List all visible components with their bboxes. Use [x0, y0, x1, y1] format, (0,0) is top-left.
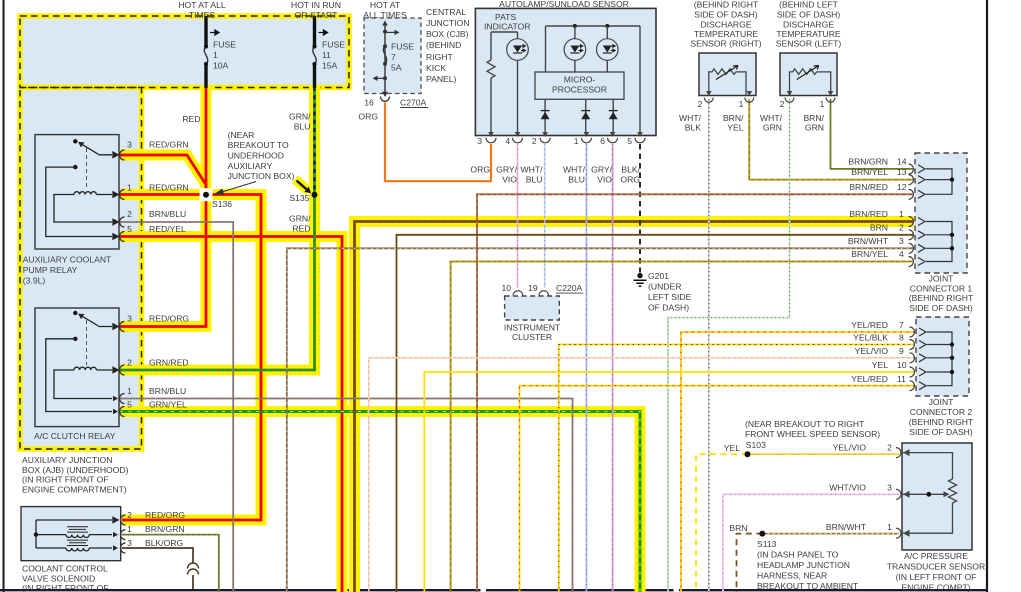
svg-text:BRN: BRN	[870, 223, 888, 233]
svg-text:11: 11	[322, 50, 331, 60]
svg-text:2: 2	[780, 99, 785, 109]
svg-text:1: 1	[127, 183, 132, 193]
svg-text:16: 16	[364, 98, 374, 108]
fuse F1 tap arrow	[210, 30, 219, 35]
aux relay lower contact dot	[73, 165, 77, 169]
autolamp pin connector cups 3 4 2 1 6 5	[486, 138, 496, 143]
auxiliary junction box AJB top band (blue fill)	[20, 16, 349, 88]
discharge temp sensor (left) box	[780, 53, 837, 96]
svg-text:1: 1	[127, 386, 132, 396]
svg-text:KICK: KICK	[426, 63, 446, 73]
micro-processor output leg pin 6	[612, 99, 614, 135]
svg-text:1: 1	[739, 99, 744, 109]
svg-text:ORG: ORG	[620, 175, 640, 185]
svg-text:1: 1	[574, 136, 579, 146]
right sensor pin cups 2 1	[704, 98, 713, 103]
svg-text:3: 3	[887, 483, 892, 493]
CJB junction dot lower	[383, 76, 387, 80]
svg-text:JOINT: JOINT	[929, 397, 955, 407]
svg-text:BRN/GRN: BRN/GRN	[145, 524, 185, 534]
svg-text:GRN/: GRN/	[289, 214, 311, 224]
JC1 internal bus group 14-12	[926, 169, 952, 194]
svg-text:1: 1	[213, 50, 218, 60]
svg-text:BRN/: BRN/	[803, 113, 824, 123]
CJB left tap arrow	[376, 77, 385, 79]
svg-text:4: 4	[899, 249, 904, 259]
svg-text:5A: 5A	[391, 63, 402, 73]
svg-text:VALVE SOLENOID: VALVE SOLENOID	[22, 574, 95, 584]
svg-text:S135: S135	[289, 193, 309, 203]
left sensor pin cups 2 1	[785, 98, 794, 103]
wire YEL/BLK JC2 pin 8 to bottom edge	[559, 345, 915, 592]
sunload photodiode D2	[564, 39, 586, 61]
wire black fuse 11 feed	[313, 16, 316, 88]
svg-text:GRY/: GRY/	[496, 165, 517, 175]
discharge temp sensor (right) box	[699, 53, 756, 96]
svg-text:2: 2	[127, 510, 132, 520]
svg-text:HOT AT ALL: HOT AT ALL	[178, 0, 226, 10]
right sensor thermistor R	[709, 69, 746, 96]
transducer pin arcs 2 3 1	[896, 448, 901, 539]
wire BRN JC1 pin 2 to bottom edge	[397, 235, 915, 592]
bus right leg to pin 5	[639, 26, 641, 136]
bus to micro-processor left drop	[545, 26, 547, 72]
solenoid top lead to pin 2	[36, 517, 118, 522]
svg-text:LEFT SIDE: LEFT SIDE	[648, 292, 692, 302]
clutch relay switch contact dot	[73, 311, 77, 315]
aux relay coil to pin 1 arrow	[96, 192, 118, 197]
svg-text:1: 1	[820, 99, 825, 109]
svg-text:8: 8	[899, 333, 904, 343]
sunload photodiode D3	[597, 39, 619, 61]
wire GRN/RED S135 down to clutch relay pin 2	[120, 195, 315, 370]
left sensor thermistor R	[790, 69, 831, 96]
svg-text:2: 2	[127, 358, 132, 368]
break symbol (double arc) on BLK/ORG	[188, 563, 199, 569]
aux relay coil to pin 2 wiring	[54, 195, 118, 225]
wire YEL/RED JC2 pin 7 to bottom edge	[681, 332, 915, 592]
JC2 pin entry arcs	[910, 327, 915, 391]
svg-text:10: 10	[502, 283, 512, 293]
svg-text:GRN/YEL: GRN/YEL	[149, 400, 187, 410]
svg-text:BLK/ORG: BLK/ORG	[145, 538, 184, 548]
JC1 internal bus group 1-4	[926, 222, 952, 262]
wire black fuse 1 feed	[204, 16, 207, 88]
svg-text:WHT/: WHT/	[563, 165, 586, 175]
wire RED/GRN aux relay pin 3 diagonal to S136	[120, 155, 206, 184]
clutch relay pin cups 3 2 1 5	[120, 322, 125, 417]
svg-text:BRN/RED: BRN/RED	[849, 209, 888, 219]
svg-text:1: 1	[887, 522, 892, 532]
autolamp internal: sunload top bus	[546, 25, 641, 27]
wire GRN/YEL clutch relay pin 5 to bottom	[120, 412, 640, 592]
wire YEL/VIO JC2 pin 9 to bottom edge	[369, 358, 915, 592]
autolamp internal: PATS branch top bar	[491, 31, 518, 33]
cluster pin 10 dome	[513, 291, 523, 296]
svg-text:10: 10	[897, 360, 907, 370]
svg-text:WHT/: WHT/	[679, 113, 702, 123]
svg-text:(IN LEFT FRONT OF: (IN LEFT FRONT OF	[896, 572, 977, 582]
solenoid internal left bus	[35, 520, 37, 548]
coolant control valve solenoid box	[21, 507, 121, 561]
svg-text:14: 14	[897, 157, 907, 167]
splice S113	[759, 531, 765, 537]
wire WHT/BLU autolamp pin 2 to instrument cluster pin 19	[544, 144, 546, 288]
highlight: GRN/BLU fuse 11 through S135, GRN/RED to clutch relay pin 2	[120, 85, 315, 370]
svg-text:(BEHIND LEFT: (BEHIND LEFT	[779, 0, 838, 10]
svg-text:RIGHT: RIGHT	[426, 52, 453, 62]
valve solenoid pin cups 2 1 3	[121, 515, 126, 553]
splice S135	[312, 192, 318, 198]
svg-text:3: 3	[127, 314, 132, 324]
diode to pin 2	[541, 110, 550, 112]
svg-text:UNDERHOOD: UNDERHOOD	[228, 151, 284, 161]
svg-text:WHT/: WHT/	[760, 113, 783, 123]
svg-text:JUNCTION BOX): JUNCTION BOX)	[228, 171, 295, 181]
svg-text:ENGINE COMPARTMENT): ENGINE COMPARTMENT)	[22, 485, 127, 495]
wire GRY/VIO autolamp pin 4 to instrument cluster pin 10	[517, 144, 519, 288]
micro-processor output leg pin 1	[585, 99, 587, 135]
svg-text:RED: RED	[292, 224, 310, 234]
node dot sunload D3	[605, 24, 609, 28]
wire GRN/BLU fuse 11 to S135	[313, 87, 316, 195]
page right border	[986, 0, 988, 592]
svg-text:RED: RED	[182, 114, 200, 124]
svg-text:JOINT: JOINT	[929, 274, 955, 284]
svg-text:C220A: C220A	[556, 283, 583, 293]
clutch relay coil to pin 1 wiring	[54, 370, 112, 399]
wire BRN/BLU clutch relay pin 1 to bottom edge	[120, 399, 573, 592]
svg-text:S103: S103	[746, 440, 766, 450]
svg-text:GRN: GRN	[763, 123, 782, 133]
svg-text:TRANSDUCER SENSOR: TRANSDUCER SENSOR	[887, 561, 985, 571]
svg-text:TIMES: TIMES	[189, 10, 216, 20]
wire BLK/ORG coolant valve pin 3 to break symbol	[122, 548, 193, 589]
svg-text:GRY/: GRY/	[591, 165, 612, 175]
svg-text:BLU: BLU	[294, 122, 311, 132]
svg-text:TEMPERATURE: TEMPERATURE	[694, 29, 759, 39]
A/C pressure transducer sensor box	[902, 443, 972, 550]
svg-text:BREAKOUT TO: BREAKOUT TO	[228, 140, 289, 150]
AJB dashed black border (column)	[20, 88, 142, 450]
svg-text:YEL: YEL	[724, 443, 740, 453]
svg-text:SIDE OF DASH): SIDE OF DASH)	[909, 427, 973, 437]
svg-text:(BEHIND RIGHT: (BEHIND RIGHT	[909, 293, 974, 303]
svg-text:PATS: PATS	[495, 12, 516, 22]
aux relay pin 3 lead arrow	[98, 152, 118, 157]
svg-text:7: 7	[899, 320, 904, 330]
leader arrow from note to S136	[216, 182, 257, 195]
svg-text:BRN/YEL: BRN/YEL	[851, 167, 888, 177]
svg-text:ALL TIMES: ALL TIMES	[363, 10, 407, 20]
AJB dashed black border (top band)	[20, 16, 349, 88]
wire BLK/ORG autolamp pin 5 to ground G201	[639, 144, 641, 273]
svg-text:RED/ORG: RED/ORG	[149, 314, 189, 324]
micro-processor output leg pin 2	[544, 99, 546, 135]
svg-text:INDICATOR: INDICATOR	[484, 22, 530, 32]
svg-text:DISCHARGE: DISCHARGE	[700, 20, 751, 30]
svg-text:(NEAR BREAKOUT TO RIGHT: (NEAR BREAKOUT TO RIGHT	[745, 419, 865, 429]
svg-text:G201: G201	[648, 271, 669, 281]
cluster pin 19 dome	[539, 291, 549, 296]
svg-text:2: 2	[887, 443, 892, 453]
PATS indicator LED D1	[507, 39, 529, 61]
svg-text:BRN/GRN: BRN/GRN	[848, 157, 888, 167]
wire GRY/VIO autolamp pin 6 to bottom edge	[612, 144, 614, 592]
svg-text:PROCESSOR: PROCESSOR	[552, 84, 607, 94]
svg-text:BLU: BLU	[526, 175, 543, 185]
svg-text:RED/ORG: RED/ORG	[145, 510, 185, 520]
wire RED main: fuse 1 to S136 to clutch relay pin 3 (RED/ORG)	[120, 87, 206, 327]
svg-text:PUMP RELAY: PUMP RELAY	[23, 265, 78, 275]
wire BRN dashed from S113 to bottom edge	[737, 534, 763, 592]
JC1 internal chevrons	[918, 165, 925, 266]
wire BRN/YEL right temp sensor pin 1 to JC1 pin 13	[749, 99, 914, 180]
wire BRN/WHT S113 to A/C pressure transducer pin 1	[762, 533, 899, 535]
svg-text:FUSE: FUSE	[391, 42, 414, 52]
PATS indicator LED leg to pin 4	[517, 32, 519, 136]
autolamp internal: left leg with resistor to pin 3	[490, 32, 492, 136]
svg-text:COOLANT CONTROL: COOLANT CONTROL	[22, 564, 108, 574]
svg-text:RED/GRN: RED/GRN	[149, 140, 189, 150]
CJB right tap arrow	[385, 31, 396, 33]
aux relay coil L	[74, 192, 96, 195]
svg-text:OR START: OR START	[295, 10, 338, 20]
svg-text:HEADLAMP JUNCTION: HEADLAMP JUNCTION	[757, 560, 850, 570]
svg-text:WHT/VIO: WHT/VIO	[829, 483, 866, 493]
svg-text:ORG: ORG	[358, 112, 378, 122]
aux relay pin cups 3 1 2 5	[120, 150, 125, 242]
connector C270A cup	[381, 97, 390, 102]
wire BRN/RED JC1 pin 1 to bottom edge (highlighted)	[355, 222, 915, 592]
svg-text:3: 3	[127, 538, 132, 548]
svg-text:5: 5	[627, 136, 632, 146]
svg-text:(IN RIGHT FRONT OF: (IN RIGHT FRONT OF	[22, 583, 109, 592]
svg-text:SIDE OF DASH): SIDE OF DASH)	[777, 10, 841, 20]
diode to pin 1	[581, 110, 590, 112]
wire WHT/BLK right temp sensor pin 2 to bottom edge	[708, 99, 710, 592]
autolamp pin exit arrows	[488, 132, 643, 137]
svg-text:1: 1	[899, 209, 904, 219]
auxiliary junction box AJB left column (blue fill)	[20, 88, 142, 450]
transducer pin 2 internal lead	[903, 453, 953, 479]
svg-text:2: 2	[899, 223, 904, 233]
wire WHT/GRN left temp sensor pin 2 down, across, to bottom edge	[668, 99, 790, 592]
svg-text:BOX (AJB) (UNDERHOOD): BOX (AJB) (UNDERHOOD)	[22, 465, 129, 475]
svg-text:A/C PRESSURE: A/C PRESSURE	[904, 551, 968, 561]
transducer resistor R	[949, 479, 957, 506]
wire BRN/BLU aux relay pin 2 to bottom edge	[120, 222, 233, 592]
svg-text:7: 7	[391, 52, 396, 62]
svg-text:CONNECTOR 2: CONNECTOR 2	[910, 407, 973, 417]
transducer pin 1 internal lead	[903, 506, 953, 533]
svg-text:GRN/RED: GRN/RED	[149, 358, 189, 368]
sunload photodiode D2 legs	[574, 26, 576, 72]
svg-text:4: 4	[505, 136, 510, 146]
svg-text:BRN/YEL: BRN/YEL	[851, 249, 888, 259]
svg-text:(UNDER: (UNDER	[648, 282, 681, 292]
svg-text:9: 9	[899, 346, 904, 356]
solenoid winding L2 on bottom lead to pin 3	[36, 547, 112, 549]
svg-text:S136: S136	[212, 199, 232, 209]
node dot sunload D2	[573, 24, 577, 28]
svg-text:CENTRAL: CENTRAL	[426, 7, 466, 17]
svg-text:MICRO-: MICRO-	[564, 75, 596, 85]
wire RED/GRN aux relay pin 1 to S136 branch down to coolant valve pin 2 (RED/ORG)	[120, 195, 261, 521]
svg-text:RED/GRN: RED/GRN	[149, 183, 189, 193]
svg-text:HOT IN RUN: HOT IN RUN	[291, 0, 341, 10]
svg-text:JUNCTION: JUNCTION	[426, 18, 469, 28]
clutch relay lower contact dot	[73, 337, 77, 341]
svg-text:(BEHIND RIGHT: (BEHIND RIGHT	[694, 0, 759, 10]
svg-text:OF DASH): OF DASH)	[648, 303, 689, 313]
solenoid winding L1 on middle lead to pin 1	[36, 534, 112, 536]
svg-text:HARNESS, NEAR: HARNESS, NEAR	[757, 571, 827, 581]
wire WHT/BLU autolamp pin 1 to bottom edge	[585, 144, 587, 592]
svg-text:INSTRUMENT: INSTRUMENT	[504, 322, 561, 332]
svg-text:VIO: VIO	[597, 175, 612, 185]
svg-text:BLK: BLK	[685, 123, 702, 133]
wire WHT/VIO A/C pressure transducer pin 3 to bottom edge	[723, 494, 899, 592]
svg-text:DISCHARGE: DISCHARGE	[783, 20, 834, 30]
svg-text:AUTOLAMP/SUNLOAD SENSOR: AUTOLAMP/SUNLOAD SENSOR	[499, 0, 629, 9]
clutch relay coil to pin 2 arrow	[96, 367, 118, 372]
svg-text:(IN RIGHT FRONT OF: (IN RIGHT FRONT OF	[22, 475, 109, 485]
svg-text:YEL/VIO: YEL/VIO	[833, 443, 867, 453]
svg-text:BLU: BLU	[568, 175, 585, 185]
svg-text:2: 2	[127, 209, 132, 219]
highlight: RED/YEL aux relay pin 5 to bottom edge	[120, 237, 342, 592]
CJB junction dot upper	[383, 30, 387, 34]
clutch relay coil L	[74, 367, 96, 370]
right sensor pin arrows	[706, 91, 752, 96]
svg-text:(3.9L): (3.9L)	[23, 275, 46, 285]
CJB top up-arrow	[382, 21, 388, 26]
svg-text:(BEHIND: (BEHIND	[426, 40, 461, 50]
aux relay switch contact dot	[73, 139, 77, 143]
svg-text:AUXILIARY COOLANT: AUXILIARY COOLANT	[23, 254, 112, 264]
svg-text:SENSOR (RIGHT): SENSOR (RIGHT)	[690, 39, 761, 49]
svg-text:YEL/VIO: YEL/VIO	[855, 346, 889, 356]
fuse F7 element	[383, 46, 386, 64]
svg-text:C270A: C270A	[400, 98, 427, 108]
wire YEL JC2 pin 10 to bottom edge	[424, 372, 915, 592]
svg-text:CONNECTOR 1: CONNECTOR 1	[910, 284, 973, 294]
svg-text:PANEL): PANEL)	[426, 74, 457, 84]
svg-text:BRN/WHT: BRN/WHT	[848, 236, 889, 246]
svg-text:10A: 10A	[213, 61, 229, 71]
svg-text:FUSE: FUSE	[322, 40, 345, 50]
joint connector 2 box	[916, 317, 969, 396]
micro-processor box U1	[535, 72, 624, 99]
left sensor pin arrows	[787, 91, 834, 96]
fuse F1 element	[204, 47, 207, 65]
svg-text:3: 3	[477, 136, 482, 146]
svg-text:VIO: VIO	[502, 175, 517, 185]
svg-text:CLUSTER: CLUSTER	[512, 332, 552, 342]
wire BRN/WHT JC1 pin 3 to bottom edge	[287, 248, 914, 592]
svg-text:AUXILIARY JUNCTION: AUXILIARY JUNCTION	[22, 455, 112, 465]
svg-text:SIDE OF DASH): SIDE OF DASH)	[909, 303, 973, 313]
svg-text:(BEHIND RIGHT: (BEHIND RIGHT	[909, 417, 974, 427]
JC2 internal chevrons	[919, 328, 926, 390]
svg-text:WHT/: WHT/	[521, 165, 544, 175]
svg-text:BREAKOUT TO AMBIENT: BREAKOUT TO AMBIENT	[757, 581, 859, 591]
svg-text:ENGINE COMPT): ENGINE COMPT)	[901, 582, 970, 592]
clutch relay pin 3 lead arrow	[98, 324, 118, 329]
wire YEL/VIO S103 to A/C pressure transducer pin 2	[748, 453, 900, 455]
svg-text:YEL/RED: YEL/RED	[851, 374, 888, 384]
aux relay mech link dashed	[86, 148, 88, 190]
svg-text:13: 13	[897, 167, 907, 177]
highlight: GRN/YEL clutch relay pin 5 to bottom edge	[120, 412, 640, 592]
transducer pin 3 wiper lead	[903, 493, 946, 495]
instrument cluster box	[505, 296, 560, 320]
svg-text:12: 12	[897, 182, 907, 192]
autolamp/sunload sensor box	[475, 8, 656, 135]
splice S136	[200, 188, 213, 201]
svg-text:BLK/: BLK/	[621, 165, 640, 175]
svg-text:BRN/BLU: BRN/BLU	[149, 209, 186, 219]
svg-text:YEL/BLK: YEL/BLK	[853, 333, 888, 343]
aux relay switch arm	[82, 144, 99, 154]
joint connector 1 box	[915, 153, 967, 273]
JC1 pin entry arcs	[909, 164, 914, 267]
JC2 internal bus	[927, 332, 952, 386]
svg-text:GRN/: GRN/	[289, 112, 311, 122]
highlight: RED feed from fuse 1 through S136 to A/C clutch relay pin 3	[120, 85, 206, 327]
resistor in PATS branch	[487, 60, 495, 78]
svg-text:3: 3	[127, 140, 132, 150]
wire YEL dashed from S103 to bottom edge	[696, 454, 748, 592]
highlight: BRN/RED joint connector 1 pin 1 to bottom edge	[355, 222, 915, 592]
svg-text:SIDE OF DASH): SIDE OF DASH)	[694, 10, 758, 20]
highlight: S135 breakout stub	[295, 179, 309, 192]
svg-text:FRONT WHEEL SPEED SENSOR): FRONT WHEEL SPEED SENSOR)	[745, 429, 880, 439]
CJB bottom exit arrow into C270A	[384, 88, 386, 92]
svg-text:BRN/BLU: BRN/BLU	[149, 386, 186, 396]
svg-text:19: 19	[528, 283, 538, 293]
svg-text:A/C CLUTCH RELAY: A/C CLUTCH RELAY	[34, 431, 116, 441]
highlight: RED/GRN aux relay pin 3 to S136	[120, 155, 205, 184]
svg-text:AUXILIARY: AUXILIARY	[228, 161, 273, 171]
svg-text:HOT AT: HOT AT	[370, 0, 401, 10]
CJB internal feed line	[384, 23, 386, 88]
svg-text:5: 5	[127, 224, 132, 234]
svg-text:GRN: GRN	[805, 123, 824, 133]
svg-text:YEL: YEL	[872, 360, 888, 370]
highlight: RED/GRN aux relay pin 1 through S136 down to coolant valve pin 2	[120, 195, 261, 521]
svg-text:YEL/RED: YEL/RED	[851, 320, 888, 330]
svg-text:2: 2	[532, 136, 537, 146]
svg-text:S113: S113	[757, 539, 777, 549]
central junction box CJB	[364, 18, 421, 94]
svg-text:11: 11	[897, 374, 906, 384]
svg-text:15A: 15A	[322, 61, 338, 71]
fuse F11 element	[313, 47, 316, 65]
svg-text:1: 1	[127, 524, 132, 534]
wire ORG from C270A to autolamp sensor pin 3	[385, 103, 491, 182]
page left border	[3, 0, 5, 592]
diode to pin 6	[609, 110, 618, 112]
ground G201	[637, 273, 642, 278]
svg-text:(IN DASH PANEL TO: (IN DASH PANEL TO	[757, 550, 839, 560]
fuse F11 tap arrow	[319, 30, 328, 35]
svg-text:5: 5	[127, 400, 132, 410]
wire RED/YEL aux relay pin 5 to bottom	[120, 237, 342, 592]
svg-text:YEL: YEL	[727, 123, 743, 133]
wire BRN/YEL JC1 pin 4 to bottom edge	[451, 262, 914, 592]
